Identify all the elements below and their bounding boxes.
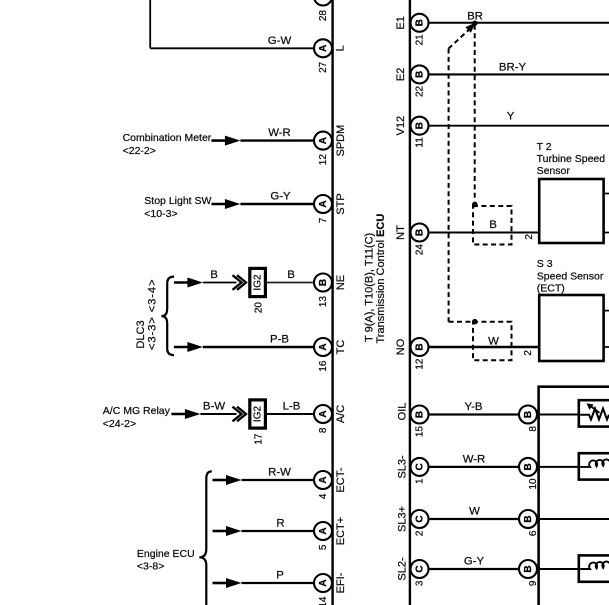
svg-text:L-B: L-B	[283, 400, 301, 412]
svg-text:2: 2	[415, 530, 426, 536]
svg-text:NE: NE	[335, 275, 347, 290]
svg-text:10: 10	[528, 478, 539, 490]
svg-text:B: B	[415, 411, 426, 418]
svg-text:STP: STP	[335, 193, 347, 214]
svg-text:13: 13	[318, 296, 329, 308]
svg-text:B: B	[415, 19, 426, 26]
svg-text:21: 21	[415, 34, 426, 46]
svg-text:NT: NT	[395, 225, 407, 240]
svg-text:S 3: S 3	[537, 258, 553, 270]
svg-text:V12: V12	[395, 116, 407, 136]
svg-text:12: 12	[318, 154, 329, 166]
svg-text:C: C	[415, 515, 426, 522]
svg-text:SPDM: SPDM	[335, 125, 347, 157]
svg-text:IG2: IG2	[253, 406, 264, 423]
svg-text:BR-Y: BR-Y	[499, 61, 527, 73]
svg-text:A: A	[318, 137, 329, 144]
svg-text:C: C	[415, 463, 426, 470]
svg-text:A: A	[318, 343, 329, 350]
svg-text:OIL: OIL	[397, 403, 409, 421]
svg-text:A: A	[318, 200, 329, 207]
svg-text:Transmission Control ECU: Transmission Control ECU	[375, 214, 387, 344]
svg-text:<10-3>: <10-3>	[144, 208, 177, 220]
svg-text:G-Y: G-Y	[464, 556, 485, 568]
svg-text:T 2: T 2	[537, 141, 552, 153]
svg-text:11: 11	[415, 137, 426, 148]
svg-text:A: A	[318, 579, 329, 586]
svg-text:B: B	[523, 463, 534, 470]
svg-text:G-W: G-W	[268, 35, 292, 47]
svg-text:W: W	[469, 506, 480, 518]
svg-text:5: 5	[318, 544, 329, 550]
svg-text:28: 28	[318, 10, 329, 22]
svg-text:E2: E2	[395, 68, 407, 81]
svg-text:R: R	[276, 517, 284, 529]
svg-text:B: B	[415, 343, 426, 350]
svg-text:B: B	[210, 269, 218, 281]
svg-text:24: 24	[415, 244, 426, 256]
svg-text:B: B	[415, 122, 426, 129]
svg-text:14: 14	[318, 596, 329, 605]
svg-text:12: 12	[415, 358, 426, 370]
svg-text:E1: E1	[395, 16, 407, 29]
svg-text:16: 16	[318, 360, 329, 372]
svg-text:B: B	[415, 71, 426, 78]
svg-text:2: 2	[524, 234, 535, 240]
svg-text:TC: TC	[335, 340, 347, 355]
svg-text:<3-3> <3-4>: <3-3> <3-4>	[146, 279, 158, 350]
svg-text:P: P	[276, 569, 284, 581]
svg-text:A: A	[318, 476, 329, 483]
svg-text:4: 4	[318, 493, 329, 499]
svg-text:B: B	[523, 565, 534, 572]
svg-text:Sensor: Sensor	[537, 165, 571, 177]
svg-text:SL2-: SL2-	[397, 557, 409, 581]
svg-text:20: 20	[253, 302, 264, 314]
svg-text:17: 17	[253, 433, 264, 445]
svg-text:B: B	[318, 279, 329, 286]
svg-text:7: 7	[318, 217, 329, 223]
svg-text:<22-2>: <22-2>	[123, 145, 156, 157]
svg-text:SL3-: SL3-	[397, 455, 409, 479]
svg-text:<3-8>: <3-8>	[137, 561, 164, 573]
svg-text:Stop Light SW: Stop Light SW	[144, 195, 211, 207]
svg-text:8: 8	[318, 427, 329, 433]
svg-text:(ECT): (ECT)	[537, 282, 565, 294]
svg-text:1: 1	[415, 478, 426, 484]
svg-text:8: 8	[528, 426, 539, 432]
svg-text:27: 27	[318, 61, 329, 73]
svg-text:Speed Sensor: Speed Sensor	[537, 271, 604, 283]
svg-text:P-B: P-B	[270, 333, 289, 345]
svg-text:3: 3	[415, 580, 426, 586]
svg-text:B: B	[489, 219, 497, 231]
svg-text:B-W: B-W	[203, 400, 225, 412]
svg-text:B: B	[523, 515, 534, 522]
svg-text:A/C MG Relay: A/C MG Relay	[103, 405, 171, 417]
svg-text:Engine ECU: Engine ECU	[137, 548, 195, 560]
svg-text:SL3+: SL3+	[397, 506, 409, 532]
svg-text:T 9(A), T10(B), T11(C): T 9(A), T10(B), T11(C)	[364, 233, 376, 342]
svg-text:W-R: W-R	[268, 127, 291, 139]
svg-text:<24-2>: <24-2>	[103, 418, 136, 430]
svg-text:A: A	[318, 527, 329, 534]
svg-text:A: A	[318, 45, 329, 52]
svg-text:Y: Y	[507, 111, 515, 123]
svg-text:9: 9	[528, 580, 539, 586]
svg-text:15: 15	[415, 426, 426, 438]
svg-text:W-R: W-R	[463, 454, 486, 466]
svg-text:EFI-: EFI-	[335, 572, 347, 593]
svg-text:A: A	[318, 410, 329, 417]
svg-text:G-Y: G-Y	[270, 190, 291, 202]
svg-text:Combination Meter: Combination Meter	[123, 132, 212, 144]
svg-text:ECT-: ECT-	[335, 467, 347, 492]
svg-text:B: B	[415, 229, 426, 236]
svg-text:Y-B: Y-B	[465, 401, 483, 413]
svg-text:2: 2	[523, 350, 534, 356]
svg-text:W: W	[488, 336, 499, 348]
svg-text:ECT+: ECT+	[335, 517, 347, 545]
svg-text:B: B	[523, 411, 534, 418]
svg-text:B: B	[287, 269, 295, 281]
svg-text:DLC3: DLC3	[135, 320, 147, 348]
svg-text:NO: NO	[395, 338, 407, 355]
svg-text:Turbine Speed: Turbine Speed	[537, 153, 606, 165]
svg-text:C: C	[415, 565, 426, 572]
svg-text:A/C: A/C	[335, 405, 347, 423]
svg-text:6: 6	[528, 530, 539, 536]
svg-text:22: 22	[415, 85, 426, 97]
svg-text:IG2: IG2	[253, 274, 264, 291]
svg-text:L: L	[335, 45, 347, 51]
svg-text:R-W: R-W	[268, 466, 291, 478]
